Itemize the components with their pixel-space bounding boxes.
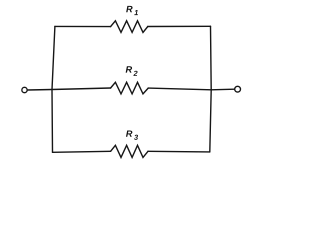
wire top-right segment (148, 25, 211, 27)
wire top-left segment (55, 25, 111, 27)
terminal right (235, 86, 241, 92)
wire middle-left segment (28, 88, 111, 90)
label R3 (126, 130, 132, 136)
wire bottom-left segment (53, 151, 111, 152)
wire bottom-right segment (148, 150, 210, 153)
label R1 (126, 6, 132, 12)
label R2 (126, 66, 132, 72)
resistor R1 (111, 21, 148, 33)
terminal left (22, 87, 27, 92)
resistor R3 (111, 145, 148, 157)
resistor R2 (111, 82, 149, 94)
left bus wire (52, 26, 55, 152)
wire middle-right segment (148, 88, 234, 90)
right bus wire (210, 26, 211, 152)
